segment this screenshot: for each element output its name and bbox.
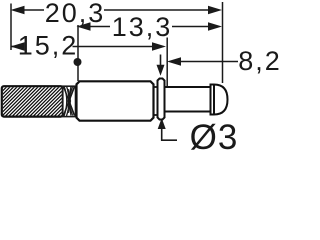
extension line right (x=222.5) bbox=[222, 2, 224, 83]
svg-text:20,3: 20,3 bbox=[45, 0, 106, 28]
diameter leader lower arrow (up) with bent leader bbox=[162, 129, 177, 140]
diameter leader upper arrow (down) bbox=[160, 55, 162, 66]
dimension 20,3 line bbox=[21, 9, 44, 11]
probe body (barrel) bbox=[77, 81, 154, 120]
thread end cone band bbox=[63, 86, 76, 117]
dimension 15,2 line bbox=[11, 46, 24, 48]
arrow right of 15,2 bbox=[152, 42, 166, 50]
arrow left of 20,3 bbox=[11, 6, 25, 14]
plunger cylinder bbox=[165, 87, 211, 112]
extension line left (x=11) bbox=[10, 4, 12, 51]
node dot on extension line bbox=[74, 58, 82, 66]
svg-text:8,2: 8,2 bbox=[238, 46, 280, 76]
arrow left of 8,2 bbox=[167, 57, 181, 65]
dimension 13,3 line bbox=[90, 26, 110, 28]
extension line mid-right (x=167) bbox=[166, 38, 168, 87]
arrow left of 15,2 bbox=[11, 42, 25, 50]
dimension 8,2 line bbox=[180, 61, 238, 63]
arrow left of 13,3 bbox=[77, 22, 91, 30]
svg-text:Ø3: Ø3 bbox=[190, 118, 239, 151]
extension line at body start / dot node (x=78) bbox=[77, 25, 79, 81]
cap inner line bbox=[213, 85, 215, 115]
svg-text:13,3: 13,3 bbox=[112, 12, 173, 42]
neck groove between body and collar bbox=[154, 87, 158, 115]
arrow right of 13,3 bbox=[208, 22, 222, 30]
collar flange (Ø3) bbox=[158, 79, 165, 120]
svg-text:15,2: 15,2 bbox=[18, 31, 79, 61]
threaded shaft outline with hatching bbox=[2, 86, 63, 116]
dome tip cap bbox=[211, 85, 228, 115]
arrow right of 20,3 bbox=[208, 6, 222, 14]
